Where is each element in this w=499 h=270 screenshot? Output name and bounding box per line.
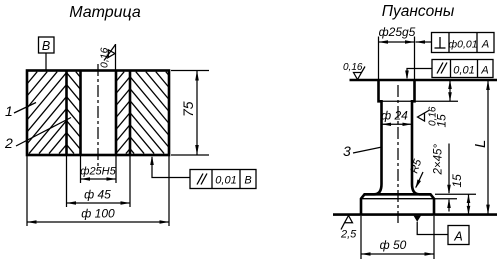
svg-text:0,01: 0,01 bbox=[215, 175, 236, 187]
dim phi100 extensions bbox=[26, 156, 28, 226]
punch bottom face line bbox=[333, 213, 497, 216]
svg-text:75: 75 bbox=[180, 101, 196, 117]
chamfer base extension line bbox=[435, 198, 457, 200]
svg-text:15: 15 bbox=[435, 114, 449, 128]
svg-text:15: 15 bbox=[450, 174, 464, 188]
svg-text:В: В bbox=[244, 175, 251, 187]
hatch part2 right ring bbox=[116, 72, 130, 154]
datum B box bbox=[39, 37, 55, 53]
svg-text:ф 50: ф 50 bbox=[380, 238, 407, 252]
svg-text:В: В bbox=[42, 39, 50, 53]
die outline bbox=[27, 71, 169, 156]
svg-text:L: L bbox=[472, 140, 489, 148]
die centerline bbox=[97, 64, 99, 167]
label 2 leader bbox=[16, 118, 71, 147]
dim 75 extension bottom bbox=[171, 154, 209, 156]
svg-text:1: 1 bbox=[5, 103, 13, 119]
svg-text:ф0,01: ф0,01 bbox=[448, 39, 477, 51]
svg-text:2: 2 bbox=[4, 135, 13, 151]
flange top edge bbox=[364, 193, 431, 196]
label 3 leader bbox=[353, 147, 382, 153]
svg-text:ф25g5: ф25g5 bbox=[379, 25, 416, 39]
svg-text:3: 3 bbox=[343, 143, 351, 159]
svg-text:2×45°: 2×45° bbox=[433, 144, 445, 176]
roughness 0,16 top face bbox=[354, 67, 366, 80]
roughness 2,5 bottom face bbox=[341, 216, 353, 230]
datum A box bbox=[448, 226, 469, 245]
datum B leader bbox=[45, 53, 47, 71]
svg-text:Матрица: Матрица bbox=[69, 4, 141, 21]
hatch part1 left block bbox=[27, 72, 66, 154]
svg-text:А: А bbox=[481, 39, 489, 51]
dim phi24 line bbox=[382, 123, 413, 125]
svg-text:0,01: 0,01 bbox=[453, 65, 474, 77]
label 1 leader bbox=[14, 103, 36, 114]
dim phi45 extensions bbox=[66, 156, 68, 207]
dim 15 top line bbox=[449, 80, 451, 101]
bore line phi25 right bbox=[115, 71, 118, 156]
punch top face line bbox=[350, 79, 498, 82]
tolerance frame perpendicular phi0,01 A bbox=[432, 33, 495, 53]
tolerance frame parallel 0,01 A bbox=[432, 60, 493, 78]
punch centerline bbox=[397, 85, 399, 226]
dim phi50 extensions bbox=[360, 216, 362, 259]
dim L line bbox=[487, 80, 489, 215]
bore line phi25 left bbox=[79, 71, 82, 156]
svg-text:0,16: 0,16 bbox=[99, 47, 111, 68]
dim phi25g5 extensions bbox=[378, 37, 380, 81]
svg-text:ф 45: ф 45 bbox=[84, 188, 111, 202]
frame perpendicular leader bbox=[416, 41, 432, 43]
svg-text:ф 100: ф 100 bbox=[81, 207, 115, 221]
svg-text:А: А bbox=[480, 65, 488, 77]
dim 15 bottom line bbox=[468, 194, 470, 214]
svg-text:0,16: 0,16 bbox=[343, 62, 363, 73]
bore line phi45 right bbox=[129, 71, 132, 156]
dim phi45 line bbox=[67, 202, 131, 204]
tolerance frame parallel 0,01 B bbox=[190, 170, 256, 189]
flange chamfer base line bbox=[361, 198, 434, 200]
punch profile left bbox=[361, 80, 382, 215]
dim phi50 line bbox=[361, 253, 434, 255]
dim 75 line bbox=[196, 71, 198, 156]
svg-text:ф 24: ф 24 bbox=[381, 109, 408, 123]
svg-text:А: А bbox=[453, 230, 462, 244]
hatch part2 left ring bbox=[67, 72, 81, 154]
roughness 0,16 phi24 surface bbox=[418, 110, 430, 121]
bore line phi45 left bbox=[65, 71, 68, 156]
datum A leader bbox=[417, 222, 448, 235]
svg-text:Пуансоны: Пуансоны bbox=[382, 3, 455, 20]
dim 75 extension top bbox=[171, 70, 209, 72]
flange top extension line bbox=[435, 193, 476, 195]
svg-text:2,5: 2,5 bbox=[340, 229, 357, 241]
R5 leader bbox=[416, 172, 423, 188]
frame parallel leader bbox=[407, 69, 432, 79]
dim phi25H5 line bbox=[81, 178, 117, 180]
dim 2x45 leader down bbox=[448, 144, 450, 194]
roughness 0,16 hole extension line bbox=[115, 44, 117, 71]
dim 2x45 arrow up bbox=[448, 200, 450, 212]
dim phi25g5 line bbox=[379, 41, 415, 43]
svg-text:ф25Н5: ф25Н5 bbox=[80, 166, 116, 178]
punch profile right bbox=[412, 80, 434, 215]
dim phi100 line bbox=[27, 221, 169, 223]
dim phi25H5 extensions bbox=[80, 156, 82, 183]
datum A triangle bbox=[414, 216, 422, 222]
roughness 0,16 hole symbol bbox=[104, 45, 116, 61]
step line phi24 bbox=[379, 100, 459, 102]
tolerance frame leader bbox=[152, 157, 190, 178]
hatch part1 right block bbox=[130, 72, 169, 154]
